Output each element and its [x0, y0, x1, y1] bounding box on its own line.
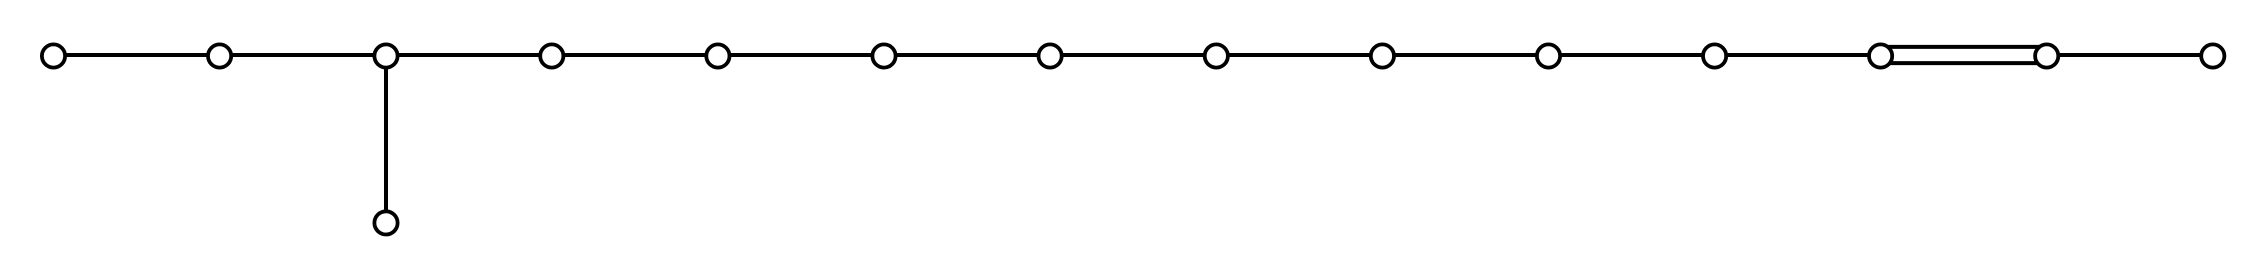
- wire edge n9-n10: [1382, 53, 1548, 57]
- node n4: [540, 44, 563, 67]
- wire edge n1-n2: [54, 53, 220, 57]
- node n1: [42, 44, 65, 67]
- wire edge n10-n11: [1549, 53, 1715, 57]
- node n2: [208, 44, 231, 67]
- wire edge n2-n3: [220, 53, 386, 57]
- node n5: [706, 44, 729, 67]
- wire branch edge n3-n15: [384, 55, 388, 223]
- wire double edge n12-n13 upper: [1881, 45, 2047, 49]
- wire edge n5-n6: [718, 53, 884, 57]
- node n6: [872, 44, 895, 67]
- node n3: [374, 44, 397, 67]
- wire edge n7-n8: [1050, 53, 1216, 57]
- node n9: [1371, 44, 1394, 67]
- node n12: [1869, 44, 1892, 67]
- wire edge n6-n7: [884, 53, 1050, 57]
- wire edge n4-n5: [552, 53, 718, 57]
- node n14: [2201, 44, 2224, 67]
- wire edge n3-n4: [386, 53, 552, 57]
- node n13: [2035, 44, 2058, 67]
- node n11: [1703, 44, 1726, 67]
- node n15 branch: [374, 211, 397, 234]
- wire double edge n12-n13 lower: [1881, 61, 2047, 65]
- node n8: [1205, 44, 1228, 67]
- node n7: [1039, 44, 1062, 67]
- wire edge n11-n12: [1715, 53, 1881, 57]
- node n10: [1537, 44, 1560, 67]
- wire edge n8-n9: [1216, 53, 1382, 57]
- wire edge n13-n14: [2047, 53, 2213, 57]
